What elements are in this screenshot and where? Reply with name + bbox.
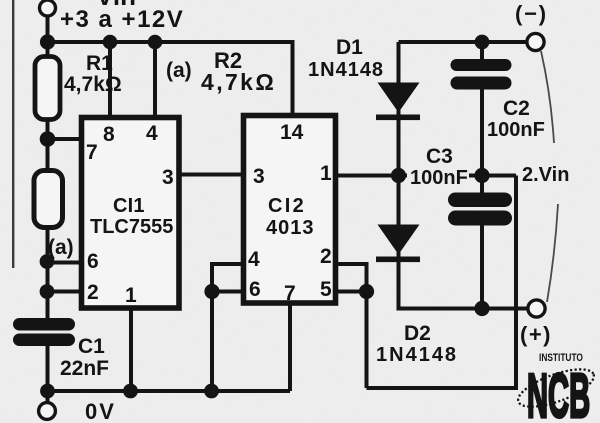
svg-text:3: 3 — [162, 166, 174, 189]
wire: R aux bottom down left rail — [46, 228, 50, 319]
node: pin 8 rail — [103, 35, 118, 50]
svg-text:D2: D2 — [404, 322, 431, 345]
wire: pin 8 drop — [108, 42, 112, 118]
svg-text:0V: 0V — [85, 399, 116, 423]
svg-text:(a): (a) — [48, 236, 74, 259]
svg-text:5: 5 — [320, 278, 332, 301]
IC CI1 box — [82, 118, 180, 309]
svg-text:1N4148: 1N4148 — [308, 59, 384, 81]
svg-text:1N4148: 1N4148 — [376, 344, 458, 366]
terminal +V input — [40, 0, 56, 16]
node: pin 4 rail — [148, 35, 163, 50]
svg-text:4: 4 — [248, 248, 260, 271]
wire: D1 cathode — [397, 110, 401, 176]
resistor R2 body (a) — [34, 171, 63, 228]
svg-text:1: 1 — [125, 284, 137, 307]
node: pin 6 tap — [40, 254, 55, 269]
logo orbit — [514, 362, 598, 415]
scan edge line left — [12, 0, 14, 268]
svg-text:4013: 4013 — [266, 217, 315, 239]
svg-text:TLC7555: TLC7555 — [90, 216, 173, 238]
wire: D2 anode — [397, 176, 401, 228]
diode D2 — [376, 225, 420, 263]
svg-text:6: 6 — [87, 250, 99, 273]
node: C2 rail junction — [475, 35, 490, 50]
svg-text:R1: R1 — [86, 52, 113, 75]
node: C3 top junction — [474, 168, 489, 183]
wire: C2 to node — [480, 87, 484, 195]
node: pins 4-6 junction — [204, 284, 219, 299]
wire: C1 bottom to bottom rail — [46, 345, 50, 402]
svg-text:NCB: NCB — [527, 362, 590, 423]
svg-text:(a): (a) — [166, 59, 192, 82]
wire: CI1 pin1 drop — [129, 308, 133, 391]
capacitor C2 plates — [451, 59, 512, 90]
wire: pin1 node line left — [336, 174, 407, 178]
svg-text:8: 8 — [103, 123, 115, 146]
svg-text:(+): (+) — [520, 322, 552, 347]
svg-text:6: 6 — [249, 278, 261, 301]
svg-text:4,7kΩ: 4,7kΩ — [64, 73, 122, 96]
wire: CI2 pins 4-6 tie — [212, 264, 243, 391]
svg-text:D1: D1 — [336, 36, 363, 59]
wire: CI2 pin 7 drop — [288, 303, 292, 391]
wire: R1 bottom to node a1 — [46, 121, 50, 169]
wire: CI2 pins 2-5 tie — [336, 264, 367, 388]
svg-text:C2: C2 — [503, 97, 530, 120]
wire: +V terminal to top rail — [46, 15, 50, 56]
svg-text:100nF: 100nF — [487, 119, 545, 141]
capacitor C1 plates — [13, 318, 75, 346]
terminal 0V — [39, 403, 56, 420]
svg-text:4,7kΩ: 4,7kΩ — [201, 69, 276, 95]
node: R1/R2/pin7 — [40, 131, 56, 147]
wire: bottom rail 0V — [48, 389, 291, 393]
wire: C3 bottom — [480, 223, 484, 309]
wire: top right rail — [399, 40, 529, 44]
logo NCB — [527, 362, 590, 423]
wire: top rail — [48, 42, 293, 115]
wire: node a1 to pin 7 — [46, 137, 82, 141]
node: C3 bottom junction — [474, 301, 489, 316]
svg-text:CI1: CI1 — [113, 195, 145, 217]
capacitor C3 plates — [448, 193, 512, 226]
svg-text:2.Vin: 2.Vin — [522, 164, 569, 186]
wire: pin 4 drop — [153, 42, 157, 118]
terminal minus output — [527, 33, 544, 50]
node: D1 cathode junction — [391, 168, 406, 183]
wire: node to pin 2 — [46, 290, 82, 294]
svg-text:100nF: 100nF — [410, 167, 468, 189]
svg-text:2: 2 — [320, 245, 332, 268]
wire: C2 branch — [480, 42, 484, 62]
svg-text:7: 7 — [284, 282, 296, 305]
node: bottom rail pin1 — [123, 384, 138, 399]
logo INSTITUTO — [539, 352, 583, 364]
wire: pin 6 stub — [212, 290, 243, 294]
wire: pin3 link CI1-CI2 — [179, 173, 243, 177]
wire: node to pin 6 — [46, 261, 82, 265]
svg-text:7: 7 — [86, 141, 98, 164]
svg-text:1: 1 — [320, 162, 332, 185]
IC CI2 box — [244, 116, 336, 304]
wire: D2 cathode to plus rail — [399, 252, 529, 309]
node: pin 2 tap — [40, 284, 55, 299]
svg-text:C3: C3 — [426, 145, 453, 168]
svg-text:14: 14 — [280, 121, 304, 144]
node: pins 2-5 junction — [359, 284, 374, 299]
probe lead lower — [547, 204, 558, 302]
svg-text:C1: C1 — [78, 335, 105, 358]
wire: bottom loop to 2Vin — [367, 176, 517, 389]
svg-text:+3 a +12V: +3 a +12V — [60, 6, 184, 33]
node: bottom rail left — [40, 384, 55, 399]
wire: pin 5 stub — [336, 290, 367, 294]
svg-text:(−): (−) — [515, 1, 548, 26]
probe lead upper — [541, 51, 554, 143]
node: bottom rail pin4-6 — [204, 384, 219, 399]
svg-text:2: 2 — [87, 281, 99, 304]
wire: pin1 node line right — [469, 174, 516, 178]
node: +V rail left — [40, 34, 55, 49]
terminal plus output — [528, 300, 545, 317]
svg-text:4: 4 — [146, 122, 158, 145]
diode D1 — [376, 83, 420, 121]
wire: D1 anode — [397, 42, 401, 85]
resistor R1 body — [35, 57, 60, 120]
svg-text:22nF: 22nF — [60, 357, 109, 380]
svg-text:CI2: CI2 — [268, 195, 306, 217]
svg-text:3: 3 — [253, 165, 265, 188]
